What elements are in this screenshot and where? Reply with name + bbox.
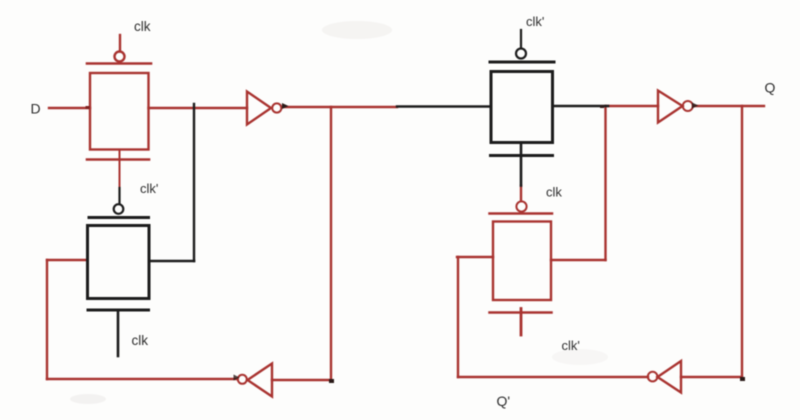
svg-text:clk: clk [546,185,562,200]
svg-text:Q: Q [765,80,776,96]
svg-text:clk: clk [132,333,149,348]
svg-text:clk': clk' [526,14,544,29]
svg-text:D: D [31,101,41,117]
svg-text:clk': clk' [140,181,158,196]
svg-text:clk: clk [134,19,151,34]
svg-text:Q': Q' [497,393,511,409]
svg-text:clk': clk' [562,338,580,353]
